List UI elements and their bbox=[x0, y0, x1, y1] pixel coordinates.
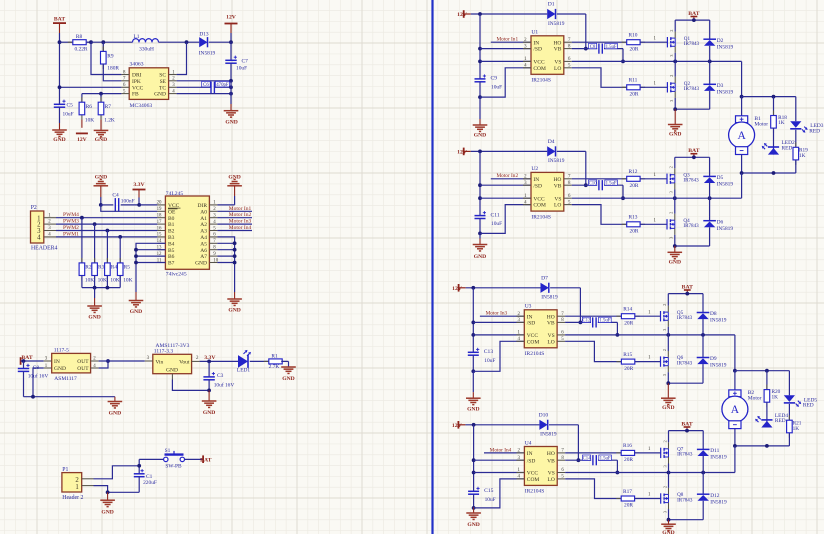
svg-text:R2: R2 bbox=[85, 265, 92, 271]
node COM join bbox=[472, 506, 476, 510]
svg-text:D11: D11 bbox=[710, 448, 719, 454]
wire net Motor In4 bbox=[484, 447, 524, 453]
transistor Q5 IR7843 bbox=[661, 294, 693, 331]
power port BAT (U1 bridge) bbox=[688, 11, 699, 20]
node VS Q column bbox=[673, 60, 677, 64]
svg-text:Vin: Vin bbox=[155, 360, 163, 366]
node VB bbox=[584, 183, 588, 187]
svg-text:GND: GND bbox=[54, 366, 66, 372]
svg-text:GND: GND bbox=[662, 405, 674, 411]
node GND rail bbox=[229, 92, 233, 96]
wire LO to R11 bbox=[572, 68, 627, 88]
svg-text:2: 2 bbox=[662, 440, 667, 442]
wire join to GND bbox=[667, 383, 669, 398]
svg-text:R10: R10 bbox=[629, 33, 638, 39]
power port 12V (U4) bbox=[452, 421, 539, 429]
svg-text:12V: 12V bbox=[77, 137, 87, 143]
svg-text:GND: GND bbox=[228, 308, 240, 314]
node motor top bbox=[733, 369, 737, 373]
node SC riser bbox=[185, 40, 189, 44]
wire VCC bbox=[480, 197, 531, 199]
power port 12V (U3) bbox=[452, 284, 540, 292]
svg-text:VCC: VCC bbox=[533, 60, 545, 66]
svg-text:C10: C10 bbox=[589, 181, 598, 186]
wire GND pin4 to rail bbox=[177, 93, 231, 95]
node 3.3V/C3 bbox=[207, 360, 211, 364]
svg-text:A: A bbox=[731, 404, 740, 416]
svg-text:10uf 16V: 10uf 16V bbox=[28, 373, 49, 380]
transistor Q1 IR7843 bbox=[667, 20, 699, 57]
svg-text:R4: R4 bbox=[111, 265, 118, 271]
svg-text:SW-PB: SW-PB bbox=[165, 463, 182, 469]
svg-text:17: 17 bbox=[157, 220, 162, 225]
capacitor C1 220uF bbox=[134, 469, 157, 492]
node PWM4/R2 bbox=[80, 216, 84, 220]
wire R16 to gate bbox=[635, 447, 661, 453]
node C4 left / OE bbox=[99, 203, 103, 207]
svg-text:Motor In1: Motor In1 bbox=[229, 206, 252, 212]
node R8/R9 junction bbox=[89, 40, 93, 44]
svg-text:R15: R15 bbox=[623, 352, 632, 358]
wire SD bbox=[473, 321, 524, 323]
node PWM2/R4 bbox=[106, 229, 110, 233]
node C3/GND bbox=[207, 389, 211, 393]
ground GND (R1) bbox=[281, 367, 296, 382]
svg-text:180R: 180R bbox=[107, 65, 119, 71]
svg-text:Motor: Motor bbox=[748, 396, 762, 402]
svg-text:330uH: 330uH bbox=[139, 47, 154, 53]
node A7 rail bbox=[233, 254, 237, 258]
node cap/VS bbox=[621, 196, 625, 200]
resistor R12 20R bbox=[622, 169, 645, 189]
IC ASM1117 (1117-5) bbox=[44, 347, 99, 382]
svg-text:1.5uF: 1.5uF bbox=[606, 181, 617, 186]
svg-text:/SD: /SD bbox=[533, 47, 542, 53]
wire rail down to ground bbox=[230, 81, 232, 111]
svg-text:12V: 12V bbox=[457, 12, 468, 18]
ground GND (buck out) bbox=[224, 111, 239, 126]
node source join bbox=[667, 518, 671, 522]
svg-text:D5: D5 bbox=[717, 175, 724, 181]
svg-text:HO: HO bbox=[547, 314, 555, 320]
svg-text:2: 2 bbox=[669, 166, 674, 168]
node VS D column bbox=[708, 196, 712, 200]
wire net PWM3 bbox=[56, 219, 157, 225]
LED LED4 RED bbox=[755, 402, 788, 427]
svg-text:C4: C4 bbox=[112, 193, 119, 199]
node SD rail bbox=[471, 321, 475, 325]
node VCC rail bbox=[471, 333, 475, 337]
ground GND (reg2) bbox=[202, 401, 217, 416]
node B7 rail bbox=[134, 261, 138, 265]
node VCC rail bbox=[478, 196, 482, 200]
svg-text:2: 2 bbox=[669, 30, 674, 32]
wire R14 to gate bbox=[635, 310, 661, 316]
svg-text:GND: GND bbox=[662, 530, 674, 534]
svg-text:GND: GND bbox=[669, 132, 681, 138]
svg-text:C8: C8 bbox=[590, 45, 596, 50]
diode D12 bbox=[697, 473, 727, 520]
svg-text:VCC: VCC bbox=[527, 333, 539, 339]
capacitor C4 bbox=[101, 193, 139, 212]
node B5 rail bbox=[134, 248, 138, 252]
node SD rail bbox=[478, 47, 482, 51]
ground GND (reg1) bbox=[108, 402, 123, 417]
resistor R14 20R bbox=[616, 307, 639, 327]
svg-text:S1: S1 bbox=[165, 448, 171, 454]
capacitor C11 10uF bbox=[475, 211, 503, 233]
svg-text:D7: D7 bbox=[541, 275, 548, 281]
svg-text:1K: 1K bbox=[778, 120, 785, 126]
svg-text:VS: VS bbox=[554, 196, 561, 202]
svg-text:B7: B7 bbox=[168, 261, 175, 267]
svg-text:VCC: VCC bbox=[533, 196, 545, 202]
svg-text:IR7843: IR7843 bbox=[677, 315, 693, 321]
wire to GND bbox=[107, 492, 109, 500]
wire pin2 to cap node bbox=[94, 466, 140, 479]
wire source join row bbox=[675, 245, 710, 247]
resistor R21 1K bbox=[787, 415, 802, 446]
svg-text:DRI: DRI bbox=[132, 73, 142, 79]
svg-text:GND: GND bbox=[130, 309, 142, 315]
wire BAT top row bbox=[668, 293, 703, 295]
svg-text:OE: OE bbox=[168, 209, 176, 215]
svg-text:Motor In4: Motor In4 bbox=[229, 225, 252, 231]
svg-text:DIR: DIR bbox=[198, 203, 208, 209]
svg-text:D4: D4 bbox=[548, 139, 555, 145]
svg-text:IR7843: IR7843 bbox=[683, 178, 699, 184]
svg-text:VB: VB bbox=[554, 47, 562, 53]
wire net Motor In4 (A3) bbox=[217, 225, 252, 231]
node VS D column bbox=[708, 60, 712, 64]
svg-text:D9: D9 bbox=[710, 356, 717, 362]
node VCC/BAT rail bbox=[58, 85, 62, 89]
svg-text:R14: R14 bbox=[623, 307, 632, 313]
node 12V/C7 bbox=[229, 40, 233, 44]
svg-text:470pF: 470pF bbox=[216, 83, 229, 88]
svg-text:VS: VS bbox=[548, 333, 555, 339]
svg-text:HO: HO bbox=[553, 177, 561, 183]
svg-text:VS: VS bbox=[554, 60, 561, 66]
power port BAT (regulator input) bbox=[21, 355, 44, 365]
ground GND (B4-B7) bbox=[129, 301, 144, 316]
wire Q5 source to VS bbox=[667, 327, 669, 335]
svg-text:PWM2: PWM2 bbox=[63, 225, 79, 231]
svg-text:1.2K: 1.2K bbox=[104, 117, 115, 123]
svg-text:RED: RED bbox=[803, 403, 814, 409]
diode D5 bbox=[703, 157, 733, 198]
node BAT bbox=[685, 292, 689, 296]
svg-text:Motor In3: Motor In3 bbox=[486, 311, 508, 317]
svg-text:10uF: 10uF bbox=[491, 85, 502, 91]
wire BAT top row bbox=[669, 430, 704, 432]
node BAT bbox=[692, 155, 696, 159]
node COM join bbox=[478, 232, 482, 236]
IC U2 IR2104S bbox=[523, 166, 572, 220]
svg-text:COM: COM bbox=[533, 203, 546, 209]
wire VS row bbox=[565, 335, 735, 371]
svg-text:10K: 10K bbox=[123, 278, 132, 284]
capacitor C7 bbox=[225, 56, 248, 81]
wire VCC rail bbox=[479, 151, 481, 215]
svg-text:/SD: /SD bbox=[533, 183, 542, 189]
node LED4 bottom bbox=[765, 444, 769, 448]
svg-text:R7: R7 bbox=[105, 104, 112, 110]
svg-text:R17: R17 bbox=[623, 489, 632, 495]
svg-text:R3: R3 bbox=[98, 265, 105, 271]
svg-text:IR7843: IR7843 bbox=[677, 452, 693, 458]
svg-text:A6: A6 bbox=[200, 248, 207, 254]
node COM join bbox=[478, 95, 482, 99]
svg-text:PWM3: PWM3 bbox=[63, 219, 79, 225]
wire to gnd bbox=[208, 390, 210, 400]
wire Q2 source join bbox=[674, 98, 676, 109]
svg-text:GND: GND bbox=[195, 261, 207, 267]
node TC rail bbox=[229, 85, 233, 89]
wire join to GND bbox=[674, 246, 676, 252]
svg-text:10uF: 10uF bbox=[236, 65, 247, 71]
svg-text:3.3V: 3.3V bbox=[204, 355, 216, 361]
power port 3.3V bbox=[133, 182, 146, 205]
resistor R10 20R bbox=[622, 33, 645, 53]
wire net Motor In3 (A2) bbox=[217, 219, 252, 225]
svg-text:GND: GND bbox=[95, 137, 107, 143]
wire bus to ground bbox=[94, 288, 96, 306]
node motor top bbox=[740, 95, 744, 99]
wire BAT vertical rail bbox=[59, 33, 61, 104]
wire COM bbox=[480, 68, 531, 97]
resistor R7 bbox=[98, 94, 115, 131]
wire motor bottom row bbox=[735, 445, 790, 447]
header P2 HEADER4 bbox=[31, 205, 58, 251]
wire SE pin2 to rail bbox=[177, 80, 231, 82]
svg-text:IN5819: IN5819 bbox=[717, 90, 734, 96]
wire R8 to L1 bbox=[91, 41, 133, 43]
svg-text:12V: 12V bbox=[457, 150, 468, 156]
svg-text:U2: U2 bbox=[531, 166, 538, 172]
svg-text:15: 15 bbox=[157, 233, 162, 238]
svg-text:R9: R9 bbox=[107, 53, 114, 59]
power port BAT (U2 bridge) bbox=[688, 148, 699, 157]
svg-text:D10: D10 bbox=[539, 412, 549, 418]
node 3.3V/VCC bbox=[137, 203, 141, 207]
wire TC pin3 to C6 bbox=[177, 86, 211, 88]
svg-text:HO: HO bbox=[547, 451, 555, 457]
svg-text:SC: SC bbox=[159, 73, 166, 79]
diode D7 bbox=[541, 275, 559, 300]
wire resistor ground bus bbox=[82, 287, 120, 289]
wire net Motor In1 bbox=[491, 37, 531, 43]
node PWM1/R5 bbox=[118, 235, 122, 239]
svg-text:TC: TC bbox=[159, 85, 166, 91]
svg-text:74L245: 74L245 bbox=[166, 191, 184, 197]
svg-text:C12: C12 bbox=[582, 319, 591, 324]
svg-text:B6: B6 bbox=[168, 254, 175, 260]
capacitor C15 10uF bbox=[468, 487, 496, 508]
wire GND pin down-right bbox=[172, 380, 209, 391]
wire join to GND bbox=[674, 109, 676, 124]
svg-text:IN5819: IN5819 bbox=[717, 44, 734, 50]
wire VCC pin6 to BAT rail bbox=[60, 86, 122, 88]
wire SD bbox=[480, 184, 531, 186]
IC AMS1117-3V3 bbox=[145, 343, 200, 379]
svg-text:IN5819: IN5819 bbox=[541, 295, 558, 301]
wire COM bbox=[473, 341, 524, 371]
wire HO to R10 bbox=[572, 41, 627, 43]
svg-text:IR2104S: IR2104S bbox=[525, 489, 545, 495]
svg-text:MC34063: MC34063 bbox=[130, 103, 153, 109]
svg-text:IN5819: IN5819 bbox=[548, 21, 565, 27]
wire BAT top row bbox=[675, 156, 710, 158]
LED LED2 RED bbox=[762, 128, 795, 155]
svg-text:GND: GND bbox=[166, 367, 178, 373]
wire VCC bbox=[474, 472, 525, 474]
wire HO to R14 bbox=[565, 315, 621, 317]
wire net Motor In1 (A0) bbox=[217, 206, 252, 212]
svg-text:L1: L1 bbox=[134, 34, 140, 40]
node GND10 rail bbox=[233, 261, 237, 265]
wire COM bbox=[474, 479, 525, 508]
node VS Q column bbox=[673, 196, 677, 200]
sheet divider line bbox=[431, 0, 433, 534]
svg-text:74lvc245: 74lvc245 bbox=[166, 271, 187, 277]
svg-text:1.5uF: 1.5uF bbox=[600, 456, 611, 461]
wire R15 to gate bbox=[635, 356, 661, 362]
svg-text:A7: A7 bbox=[200, 254, 207, 260]
resistor R4 bbox=[105, 231, 120, 288]
resistor R19 1K bbox=[793, 142, 808, 173]
wire net PWM2 bbox=[56, 225, 157, 231]
node source join bbox=[666, 381, 670, 385]
svg-text:U1: U1 bbox=[531, 30, 538, 36]
wire VS row bbox=[572, 173, 742, 198]
ground GND (U4 bridge) bbox=[661, 524, 676, 534]
node cap/VS bbox=[616, 333, 620, 337]
wire motor top row bbox=[735, 371, 790, 396]
wire C1 bottom to gnd node bbox=[108, 491, 140, 493]
svg-text:10K: 10K bbox=[110, 278, 119, 284]
node A6 rail bbox=[233, 248, 237, 252]
wire net PWM1 bbox=[56, 231, 157, 237]
wire D1 to VB bbox=[557, 14, 586, 49]
svg-text:2: 2 bbox=[662, 304, 667, 306]
ground GND (U1 rail) bbox=[473, 125, 488, 139]
node VB bbox=[584, 47, 588, 51]
ground GND (A-side) bbox=[227, 299, 242, 314]
svg-text:10uF: 10uF bbox=[485, 497, 496, 503]
svg-text:10uF: 10uF bbox=[491, 221, 502, 227]
svg-text:2: 2 bbox=[75, 477, 79, 484]
svg-text:C14: C14 bbox=[583, 456, 592, 461]
svg-text:Motor In3: Motor In3 bbox=[229, 219, 252, 225]
svg-text:C13: C13 bbox=[484, 349, 494, 355]
svg-text:PWM1: PWM1 bbox=[63, 231, 79, 237]
transistor Q6 IR7843 bbox=[661, 335, 693, 376]
svg-text:RED: RED bbox=[775, 418, 786, 424]
svg-text:R8: R8 bbox=[76, 34, 83, 40]
svg-text:FB: FB bbox=[132, 92, 139, 98]
node OUT bbox=[106, 359, 110, 363]
svg-text:GND: GND bbox=[467, 522, 479, 528]
capacitor C12 1.5uF bbox=[582, 317, 617, 335]
svg-text:A5: A5 bbox=[200, 241, 207, 247]
svg-text:10uF: 10uF bbox=[63, 112, 74, 118]
wire net Motor In2 (A1) bbox=[217, 212, 252, 218]
svg-text:20R: 20R bbox=[630, 229, 639, 235]
IC U1 IR2104S bbox=[523, 30, 572, 84]
svg-text:D2: D2 bbox=[717, 38, 724, 44]
node COM join bbox=[471, 369, 475, 373]
svg-text:R5: R5 bbox=[124, 265, 131, 271]
svg-text:IN5819: IN5819 bbox=[548, 158, 565, 164]
svg-text:10uf 16V: 10uf 16V bbox=[214, 382, 235, 389]
wire OUT join bbox=[99, 361, 108, 368]
wire OE pin19 tie bbox=[101, 205, 158, 211]
node BAT bbox=[685, 429, 689, 433]
svg-text:VCC: VCC bbox=[527, 471, 539, 477]
svg-text:D6: D6 bbox=[717, 219, 724, 225]
wire SD bbox=[474, 459, 525, 461]
svg-text:SE: SE bbox=[160, 79, 167, 85]
resistor R9 bbox=[101, 42, 120, 71]
svg-text:1.5uF: 1.5uF bbox=[606, 45, 617, 50]
svg-text:34063: 34063 bbox=[130, 62, 144, 68]
node R9 top bbox=[101, 40, 105, 44]
node 12V rail bbox=[471, 286, 475, 290]
wire Q3 source to VS bbox=[674, 189, 676, 198]
svg-text:GND: GND bbox=[474, 254, 486, 260]
svg-text:Motor: Motor bbox=[754, 121, 768, 127]
svg-text:VCC: VCC bbox=[132, 85, 144, 91]
wire HO to R16 bbox=[565, 452, 621, 454]
wire join to GND bbox=[668, 520, 670, 524]
svg-text:20R: 20R bbox=[624, 503, 633, 509]
svg-text:IR7843: IR7843 bbox=[677, 497, 693, 503]
resistor R1 bbox=[264, 353, 289, 370]
wire VCC rail bbox=[472, 288, 474, 353]
node VCC rail bbox=[478, 60, 482, 64]
resistor R11 20R bbox=[622, 78, 645, 98]
svg-text:A2: A2 bbox=[200, 222, 207, 228]
capacitor C10 1.5uF bbox=[589, 180, 624, 198]
diode D10 bbox=[539, 412, 557, 437]
svg-text:R13: R13 bbox=[629, 215, 638, 221]
svg-text:GND: GND bbox=[669, 260, 681, 266]
wire VS row bbox=[572, 61, 742, 96]
node VS Q column bbox=[667, 471, 671, 475]
svg-text:16: 16 bbox=[157, 226, 162, 231]
ground GND inverted (DIR) bbox=[227, 175, 242, 196]
diode D9 bbox=[697, 335, 727, 383]
capacitor C6 bbox=[202, 81, 231, 93]
wire node to pin8 DRI bbox=[91, 42, 121, 74]
power port 12V (U1) bbox=[457, 10, 547, 18]
diode D1 bbox=[547, 2, 565, 27]
svg-text:D3: D3 bbox=[717, 83, 724, 89]
wire GND pin1 down bbox=[33, 368, 44, 397]
diode D4 bbox=[547, 139, 565, 164]
node A5 rail bbox=[233, 241, 237, 245]
ground GND (C5) bbox=[52, 130, 67, 143]
transistor Q4 IR7843 bbox=[667, 198, 699, 239]
power port 12V (U2) bbox=[457, 148, 547, 156]
svg-text:10K: 10K bbox=[85, 117, 94, 123]
svg-text:1K: 1K bbox=[799, 153, 806, 159]
wire R9 to pin7 IPK bbox=[103, 64, 121, 81]
svg-text:BAT: BAT bbox=[54, 17, 65, 23]
svg-text:U3: U3 bbox=[525, 304, 532, 310]
svg-text:220uF: 220uF bbox=[143, 480, 157, 486]
